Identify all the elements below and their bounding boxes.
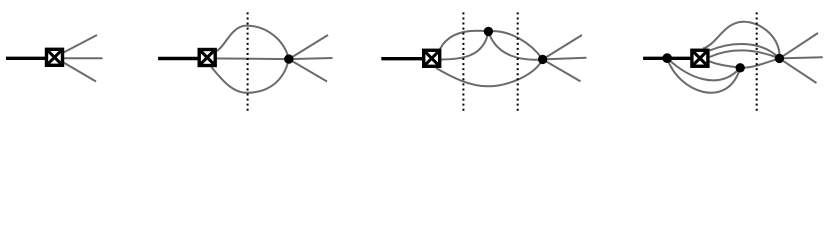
- wire: medium arc box to vertex (diagram 4): [710, 44, 780, 58]
- middle vertex dot (diagram 4): [736, 63, 745, 72]
- wire: outgoing gluon middle (diagram 1): [55, 57, 103, 59]
- wire: outgoing gluon bottom (diagram 4): [779, 58, 816, 83]
- wire: outgoing gluon middle (diagram 2): [289, 58, 333, 59]
- cut line left (diagram 3): [462, 12, 464, 111]
- wire: box to middle dot (diagram 4): [710, 61, 741, 68]
- operator insertion crossed box (diagram 3): [424, 50, 440, 66]
- wire: lower bubble arc (diagram 2): [212, 59, 289, 93]
- wire: bottom arc box to vertex (diagram 3): [436, 59, 543, 86]
- wire: outer arc left dot to middle dot (diagram 4): [667, 58, 740, 93]
- wire: incoming heavy line (diagram 3): [381, 57, 431, 60]
- wire: lower arc box to top dot (diagram 3): [442, 31, 489, 59]
- wire: incoming heavy line (diagram 4): [643, 57, 700, 60]
- wire: upper arc box to top dot (diagram 3): [440, 31, 488, 49]
- operator insertion crossed box (diagram 1): [47, 49, 63, 65]
- wire: tall arc box to vertex (diagram 4): [703, 22, 780, 59]
- cut line (diagram 2): [247, 12, 249, 111]
- wire: incoming heavy line (diagram 2): [158, 57, 207, 60]
- left vertex dot on heavy line (diagram 4): [662, 53, 672, 63]
- wire: outgoing gluon top (diagram 2): [289, 35, 328, 59]
- wire: outgoing gluon bottom (diagram 3): [543, 59, 581, 81]
- wire: outgoing gluon top (diagram 4): [779, 33, 818, 58]
- wire: incoming heavy line (diagram 1): [6, 57, 55, 60]
- wire: inner arc left dot to middle dot (diagram 4): [667, 58, 740, 80]
- wire: low arc box to vertex (diagram 4): [710, 50, 780, 58]
- wire: outgoing gluon middle (diagram 4): [779, 57, 822, 58]
- wire: outgoing gluon bottom (diagram 2): [289, 59, 327, 81]
- wire: outgoing gluon top (diagram 1): [55, 35, 98, 57]
- right vertex dot (diagram 4): [775, 54, 784, 63]
- wire: lower arc top dot to vertex (diagram 3): [488, 31, 542, 59]
- cut line (diagram 4): [756, 12, 758, 111]
- vertex dot (diagram 2): [284, 54, 293, 63]
- wire: upper arc top dot to vertex (diagram 3): [488, 31, 542, 59]
- wire: outgoing gluon bottom (diagram 1): [55, 57, 97, 81]
- operator insertion crossed box (diagram 4): [692, 50, 708, 66]
- operator insertion crossed box (diagram 2): [199, 50, 215, 66]
- top vertex dot (diagram 3): [484, 27, 493, 36]
- wire: outgoing gluon top (diagram 3): [543, 35, 582, 59]
- wire: middle dot to vertex (diagram 4): [740, 58, 779, 67]
- wire: upper bubble arc (diagram 2): [217, 26, 289, 60]
- right vertex dot (diagram 3): [538, 55, 547, 64]
- wire: outgoing gluon middle (diagram 3): [543, 58, 587, 60]
- wire: horizontal propagator (diagram 2): [207, 57, 289, 60]
- cut line right (diagram 3): [517, 12, 519, 111]
